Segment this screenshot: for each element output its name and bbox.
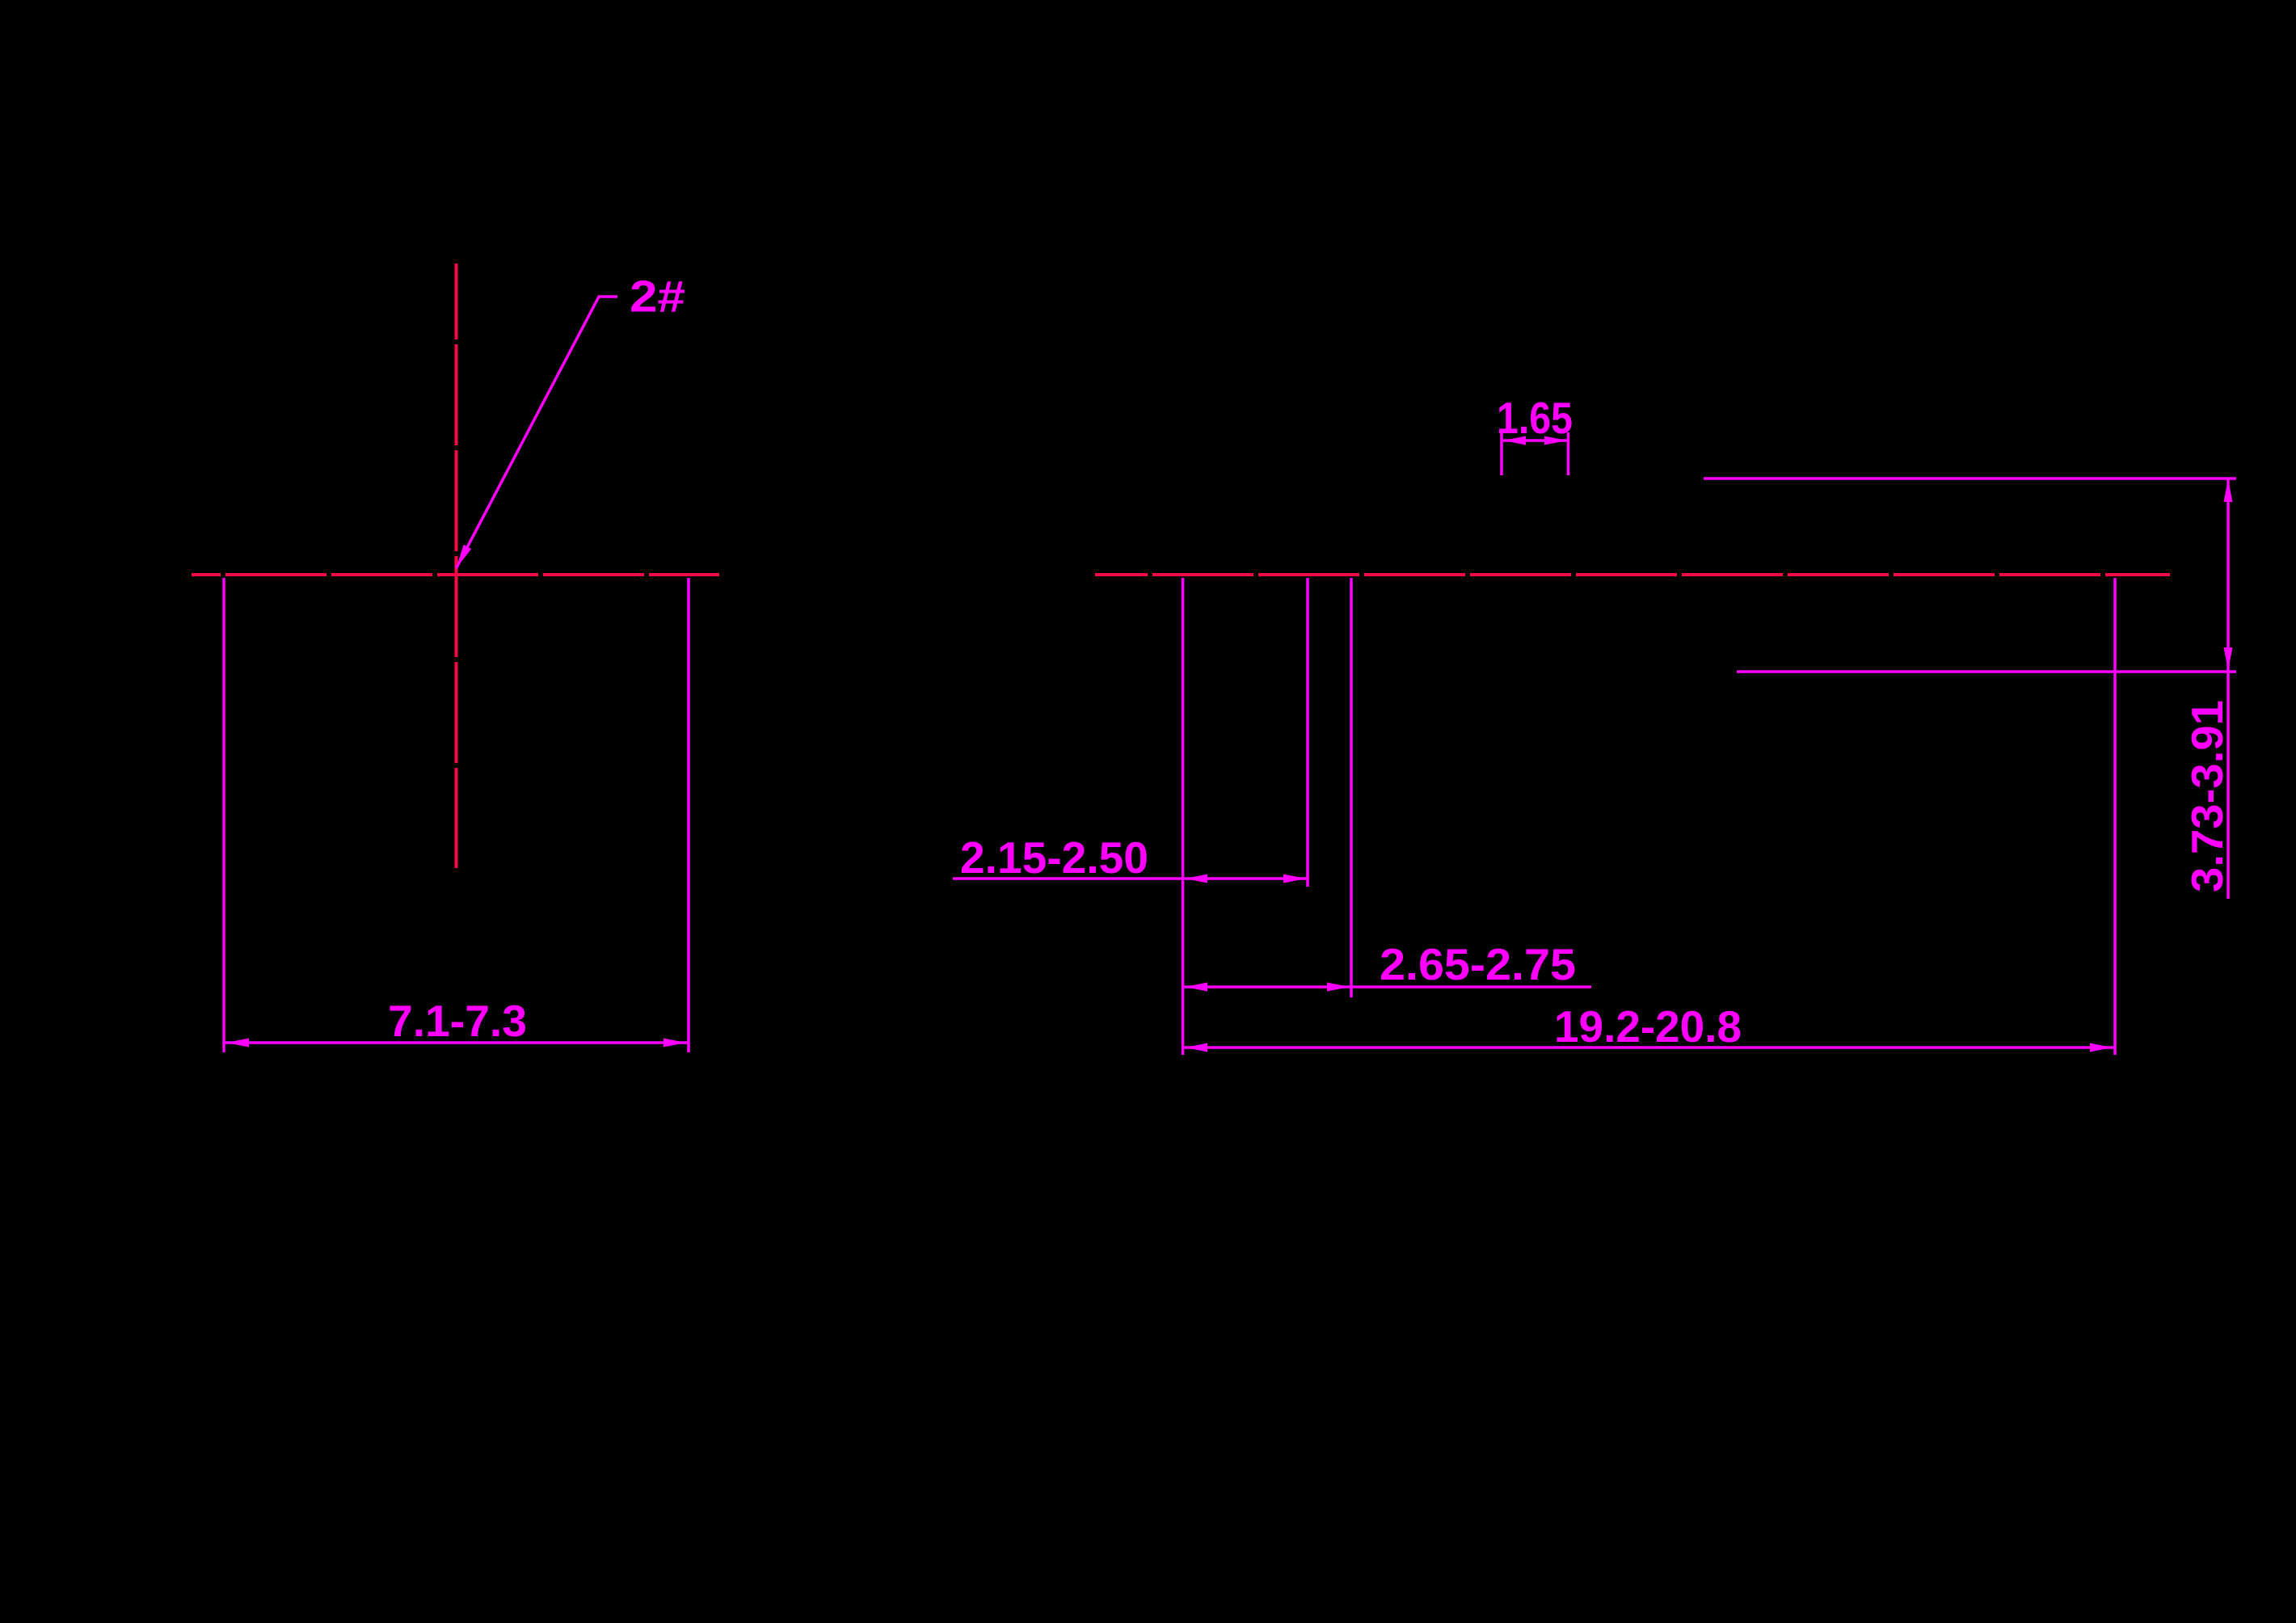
svg-text:3.73-3.91: 3.73-3.91 [2182,700,2232,892]
svg-text:19.2-20.8: 19.2-20.8 [1554,1001,1742,1052]
svg-text:2.65-2.75: 2.65-2.75 [1380,939,1576,989]
svg-text:2#: 2# [630,272,685,322]
svg-text:7.1-7.3: 7.1-7.3 [388,996,527,1046]
svg-text:1.65: 1.65 [1497,393,1573,443]
svg-text:2.15-2.50: 2.15-2.50 [960,833,1148,883]
